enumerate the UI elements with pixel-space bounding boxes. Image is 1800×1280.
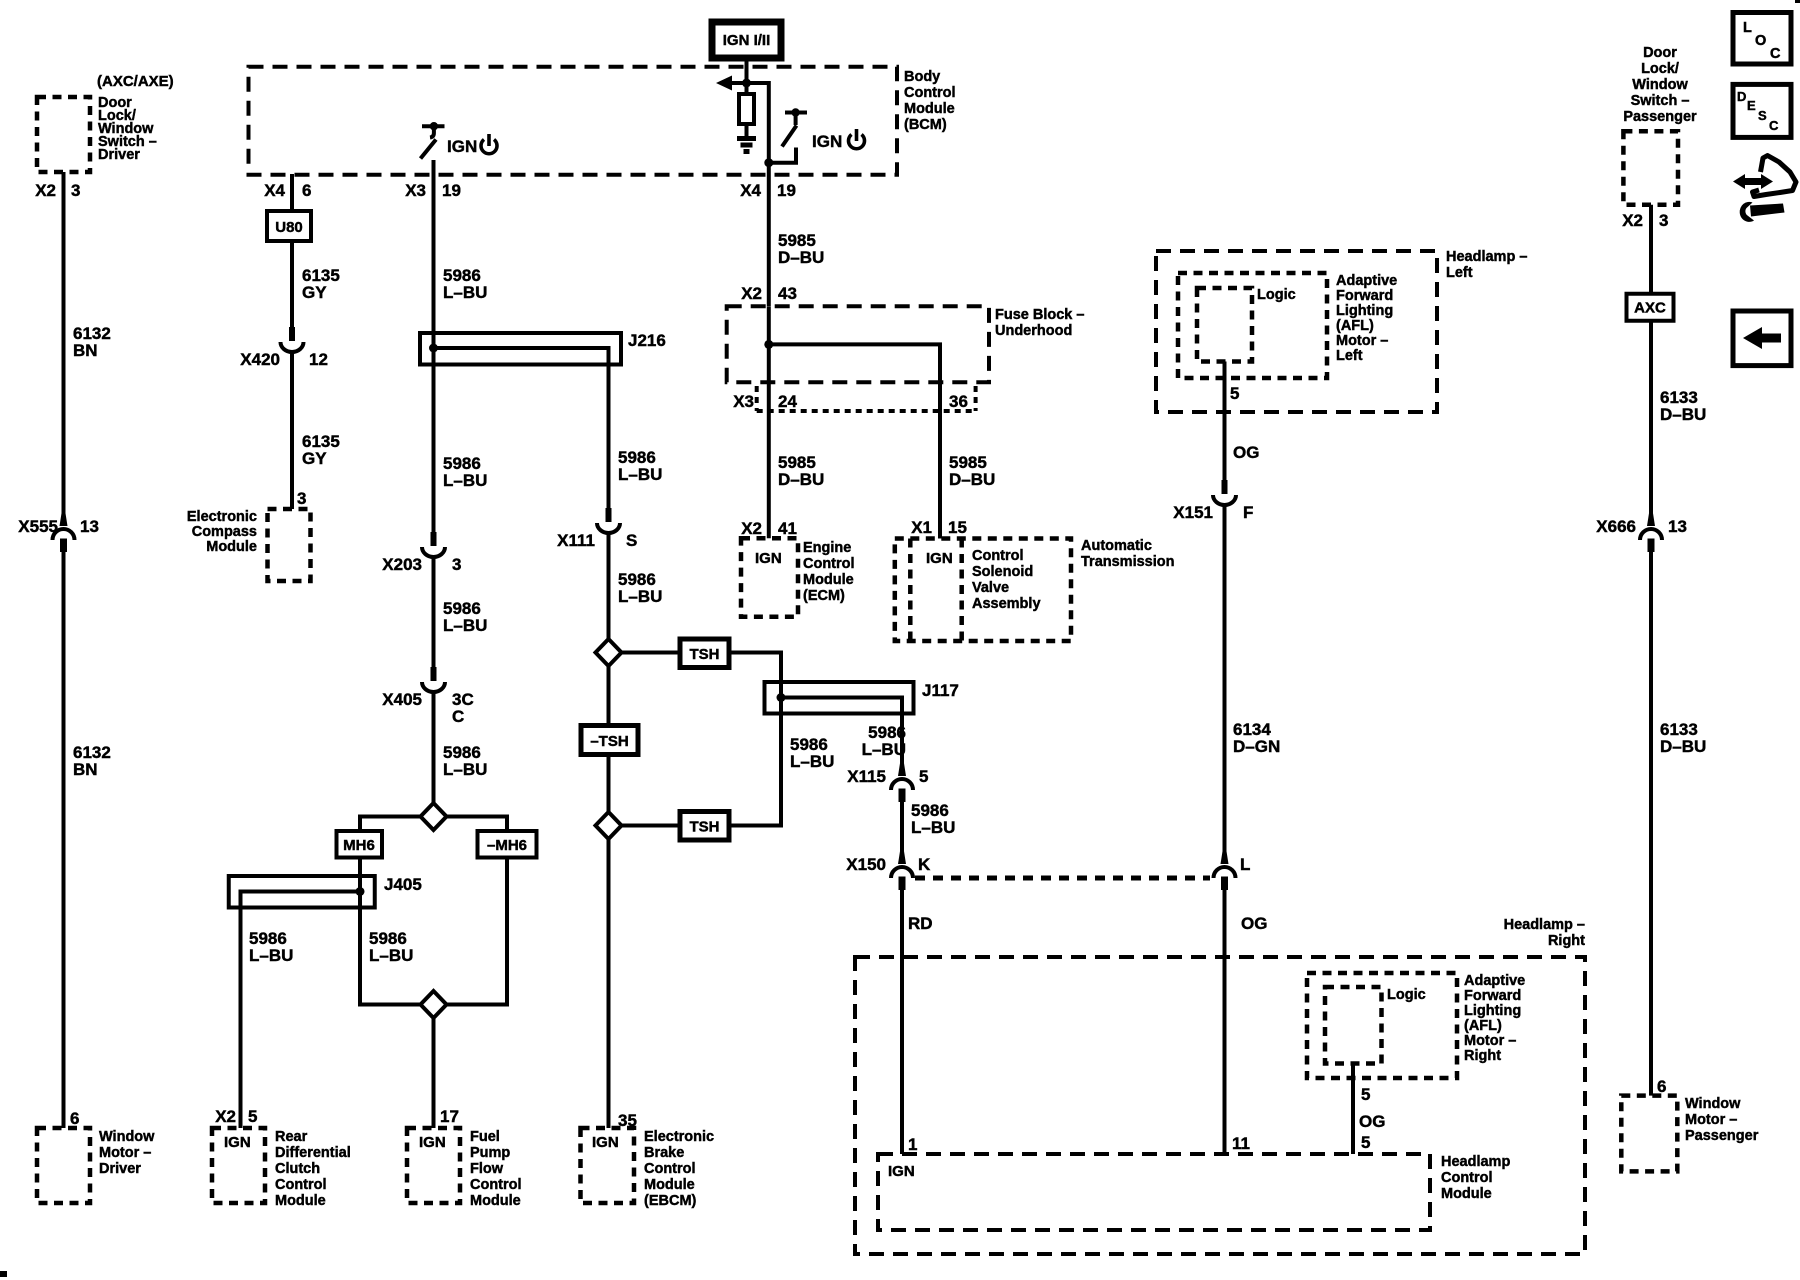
option box -TSH bbox=[581, 726, 638, 755]
svg-text:L–BU: L–BU bbox=[369, 946, 413, 965]
svg-text:17: 17 bbox=[440, 1107, 459, 1126]
connector X666 bbox=[1640, 512, 1662, 552]
svg-text:Control: Control bbox=[275, 1177, 327, 1193]
svg-text:D–BU: D–BU bbox=[778, 248, 824, 267]
connector label X405 3C C bbox=[382, 690, 473, 726]
svg-text:Lighting: Lighting bbox=[1336, 303, 1393, 319]
svg-text:X150: X150 bbox=[846, 855, 886, 874]
splice J216 bbox=[420, 333, 621, 365]
svg-text:Lighting: Lighting bbox=[1464, 1003, 1521, 1019]
module Door Lock/Window Switch - Driver bbox=[37, 97, 90, 172]
connector X151 bbox=[1213, 480, 1236, 505]
module label Engine Control Module (ECM) bbox=[803, 540, 855, 604]
svg-text:13: 13 bbox=[1668, 517, 1687, 536]
wire passenger switch to AXC bbox=[1649, 205, 1653, 294]
svg-text:Control: Control bbox=[1441, 1170, 1493, 1186]
splice label J216 bbox=[628, 331, 666, 350]
svg-text:X405: X405 bbox=[382, 690, 422, 709]
svg-text:Electronic: Electronic bbox=[187, 509, 257, 525]
svg-text:Differential: Differential bbox=[275, 1145, 351, 1161]
svg-text:Solenoid: Solenoid bbox=[972, 564, 1033, 580]
svg-text:19: 19 bbox=[777, 181, 796, 200]
svg-text:X1: X1 bbox=[911, 518, 932, 537]
wire label OG AFL left bbox=[1233, 443, 1259, 462]
svg-text:O: O bbox=[1755, 33, 1766, 49]
svg-text:D–BU: D–BU bbox=[778, 470, 824, 489]
module Control Solenoid Valve Assembly bbox=[926, 539, 962, 642]
module Door Lock/Window Switch - Passenger bbox=[1623, 131, 1678, 204]
module label Door Lock/Window Switch - Passenger bbox=[1623, 45, 1697, 125]
wire label 5986 L-BU below X3 19 bbox=[443, 266, 487, 302]
svg-text:D–BU: D–BU bbox=[949, 470, 995, 489]
svg-text:Clutch: Clutch bbox=[275, 1161, 320, 1177]
pin label X3 19 bbox=[405, 181, 461, 200]
pin label 35 EBCM bbox=[618, 1111, 637, 1130]
wire label 6133 D-BU lower bbox=[1660, 720, 1706, 756]
module Window Motor - Passenger bbox=[1621, 1096, 1677, 1172]
svg-text:X2: X2 bbox=[741, 284, 762, 303]
module label Logic left bbox=[1257, 287, 1296, 303]
svg-text:(AFL): (AFL) bbox=[1336, 318, 1374, 334]
svg-text:IGN: IGN bbox=[447, 137, 477, 156]
svg-text:Adaptive: Adaptive bbox=[1336, 273, 1397, 289]
wire fuse block through circuit bbox=[767, 306, 771, 538]
pin label X2 41 ECM bbox=[741, 519, 797, 538]
svg-text:Right: Right bbox=[1548, 933, 1585, 949]
svg-text:F: F bbox=[1243, 503, 1253, 522]
module label Window Motor - Passenger bbox=[1685, 1096, 1759, 1144]
connector L bbox=[1214, 850, 1236, 890]
connector X405 bbox=[422, 667, 445, 692]
node junction inside fuse block bbox=[764, 340, 773, 349]
module label Headlamp - Left bbox=[1446, 249, 1527, 281]
pin label 1 HCM bbox=[908, 1135, 917, 1154]
wire EBCM from lower diamond bbox=[607, 839, 611, 1128]
svg-text:X203: X203 bbox=[382, 555, 422, 574]
module Headlamp - Left bbox=[1156, 251, 1437, 412]
module Engine Control Module (ECM) bbox=[741, 538, 798, 616]
svg-text:D: D bbox=[1737, 89, 1746, 104]
connector X115 bbox=[891, 762, 913, 802]
wire diamond to TSH lower bbox=[622, 824, 681, 828]
svg-text:43: 43 bbox=[778, 284, 797, 303]
module Electronic Brake Control Module (EBCM) bbox=[581, 1128, 635, 1203]
pin label X2 3 driver switch bbox=[35, 181, 80, 200]
svg-text:Pump: Pump bbox=[470, 1145, 510, 1161]
svg-text:5: 5 bbox=[919, 767, 928, 786]
svg-text:L–BU: L–BU bbox=[443, 471, 487, 490]
svg-text:X151: X151 bbox=[1173, 503, 1213, 522]
wire label 5985 D-BU to transmission bbox=[949, 453, 995, 489]
svg-text:Window: Window bbox=[1632, 77, 1688, 93]
power feed label box IGN I/II bbox=[712, 22, 781, 58]
wire fuse block branch to transmission bbox=[769, 344, 940, 538]
splice J405 bbox=[229, 876, 375, 908]
svg-text:Valve: Valve bbox=[972, 580, 1009, 596]
arrow continuation left inside BCM bbox=[716, 76, 747, 91]
wire 6132 BN upper segment bbox=[62, 172, 66, 526]
wire label 5986 L-BU left branch bbox=[249, 929, 293, 965]
wire label 5986 L-BU below X111 bbox=[618, 570, 662, 606]
svg-text:Control: Control bbox=[904, 85, 956, 101]
svg-text:Headlamp –: Headlamp – bbox=[1446, 249, 1527, 265]
svg-text:5: 5 bbox=[1230, 384, 1239, 403]
svg-text:12: 12 bbox=[309, 350, 328, 369]
connector label X203 3 bbox=[382, 555, 461, 574]
pin label 5 logic right upper bbox=[1361, 1085, 1370, 1104]
svg-text:Body: Body bbox=[904, 69, 940, 85]
icon steering adjust double arrow bbox=[1733, 174, 1773, 189]
wire X4 19 BCM output bbox=[767, 163, 771, 306]
svg-text:5: 5 bbox=[1361, 1133, 1370, 1152]
svg-text:D–BU: D–BU bbox=[1660, 737, 1706, 756]
svg-text:K: K bbox=[918, 855, 931, 874]
svg-text:Control: Control bbox=[972, 548, 1024, 564]
svg-text:Automatic: Automatic bbox=[1081, 538, 1152, 554]
splice diamond lower TSH bbox=[596, 812, 622, 839]
module Rear Differential Clutch Control Module bbox=[212, 1128, 265, 1203]
wire MH6 branch down to merge diamond bbox=[360, 908, 421, 1005]
wire TSH upper to J117 riser bbox=[729, 653, 781, 683]
svg-text:Module: Module bbox=[470, 1193, 521, 1209]
svg-text:–MH6: –MH6 bbox=[487, 837, 527, 854]
option box -MH6 bbox=[478, 831, 537, 858]
svg-text:L–BU: L–BU bbox=[862, 740, 906, 759]
svg-text:L: L bbox=[1240, 855, 1250, 874]
svg-text:X2: X2 bbox=[35, 181, 56, 200]
module label Electronic Compass Module bbox=[187, 509, 257, 555]
svg-text:Underhood: Underhood bbox=[995, 323, 1072, 339]
module label Fuel Pump Flow Control Module bbox=[470, 1129, 522, 1209]
wire X4 6 from BCM to U80 bbox=[290, 174, 294, 211]
svg-text:X3: X3 bbox=[733, 392, 754, 411]
icon box DESC bbox=[1733, 84, 1791, 137]
svg-text:X115: X115 bbox=[847, 767, 886, 786]
switch IGN left inside BCM bbox=[421, 122, 445, 159]
svg-text:OG: OG bbox=[1241, 914, 1267, 933]
splice label J117 bbox=[922, 681, 959, 700]
pin label X3 24 36 fuse block bbox=[733, 392, 968, 411]
splice diamond lower merge bbox=[421, 991, 447, 1018]
pin label 5 AFL left bbox=[1230, 384, 1239, 403]
pin label 6 window motor passenger bbox=[1657, 1077, 1666, 1096]
module Headlamp - Right bbox=[855, 957, 1585, 1254]
module label Logic right bbox=[1387, 987, 1426, 1003]
svg-text:(EBCM): (EBCM) bbox=[644, 1193, 697, 1209]
wire label 5986 L-BU below J216 bbox=[443, 454, 487, 490]
wire diamond to MH6 bbox=[360, 817, 421, 832]
svg-text:(ECM): (ECM) bbox=[803, 588, 845, 604]
icon wrench bbox=[1740, 202, 1785, 222]
svg-text:IGN: IGN bbox=[888, 1163, 915, 1180]
svg-text:5: 5 bbox=[1361, 1085, 1370, 1104]
connector label X151 F bbox=[1173, 503, 1253, 522]
svg-text:L–BU: L–BU bbox=[443, 616, 487, 635]
module Fuel Pump Flow Control Module bbox=[407, 1128, 460, 1203]
svg-text:Module: Module bbox=[803, 572, 854, 588]
wire label 6132 BN upper bbox=[73, 324, 111, 360]
svg-text:AXC: AXC bbox=[1634, 300, 1666, 317]
fuse inside BCM bbox=[739, 94, 754, 137]
svg-text:Motor –: Motor – bbox=[1336, 333, 1388, 349]
svg-text:Control: Control bbox=[470, 1177, 522, 1193]
wire OG L to headlamp control module bbox=[1223, 890, 1227, 1154]
wire label 5986 L-BU below X115 bbox=[911, 801, 955, 837]
pin label 5 logic right lower bbox=[1361, 1133, 1370, 1152]
svg-text:24: 24 bbox=[778, 392, 797, 411]
wire 6135 GY upper segment bbox=[290, 241, 294, 328]
svg-text:TSH: TSH bbox=[690, 646, 720, 663]
wire label 6135 GY lower bbox=[302, 432, 340, 468]
ground inside BCM bbox=[737, 139, 756, 152]
wire label 5986 L-BU above X111 bbox=[618, 448, 662, 484]
svg-text:OG: OG bbox=[1233, 443, 1259, 462]
svg-text:IGN: IGN bbox=[926, 550, 953, 567]
svg-text:6: 6 bbox=[1657, 1077, 1666, 1096]
module Electronic Compass Module bbox=[268, 509, 311, 581]
svg-text:X666: X666 bbox=[1596, 517, 1636, 536]
module label Headlamp Control Module bbox=[1441, 1154, 1510, 1202]
svg-text:36: 36 bbox=[949, 392, 968, 411]
module label Electronic Brake Control Module (EBCM) bbox=[644, 1129, 714, 1209]
wire logic left to X151 bbox=[1223, 362, 1227, 481]
svg-text:J216: J216 bbox=[628, 331, 666, 350]
wire TSH lower up to J117 riser bbox=[729, 714, 781, 826]
wire label 5985 D-BU below X4 19 bbox=[778, 231, 824, 267]
wire label 5986 L-BU below X405 bbox=[443, 743, 487, 779]
switch IGN right inside BCM bbox=[764, 108, 807, 167]
switch label IGN right with power symbol bbox=[812, 129, 864, 151]
option box MH6 bbox=[337, 831, 383, 858]
connector face X3 fuse block bbox=[757, 386, 976, 411]
wire 5986 L-BU X111 to diamond bbox=[607, 532, 611, 639]
splice diamond upper MH6 bbox=[421, 803, 447, 830]
pin label 3 compass bbox=[297, 489, 306, 508]
svg-text:Control: Control bbox=[803, 556, 855, 572]
svg-text:Driver: Driver bbox=[98, 147, 140, 163]
svg-text:L: L bbox=[1743, 20, 1752, 36]
icon box LOC bbox=[1733, 13, 1791, 65]
svg-text:Right: Right bbox=[1464, 1048, 1501, 1064]
svg-text:X2: X2 bbox=[1622, 211, 1643, 230]
svg-text:C: C bbox=[1770, 46, 1781, 62]
svg-text:Engine: Engine bbox=[803, 540, 851, 556]
svg-text:Switch –: Switch – bbox=[1631, 93, 1690, 109]
svg-text:Window: Window bbox=[1685, 1096, 1741, 1112]
svg-text:L–BU: L–BU bbox=[443, 283, 487, 302]
wire label 5986 L-BU MH6 branch bbox=[369, 929, 413, 965]
option box TSH lower bbox=[680, 812, 729, 841]
wire IGN I/II feed into BCM bbox=[745, 58, 749, 94]
svg-text:(BCM): (BCM) bbox=[904, 117, 947, 133]
connector label X115 5 bbox=[847, 767, 928, 786]
svg-text:Driver: Driver bbox=[99, 1161, 141, 1177]
splice diamond upper TSH bbox=[596, 639, 622, 666]
svg-text:Passenger: Passenger bbox=[1623, 109, 1697, 125]
svg-text:IGN I/II: IGN I/II bbox=[723, 32, 771, 49]
connector X555 bbox=[53, 512, 75, 552]
wire label 5986 L-BU below X203 bbox=[443, 599, 487, 635]
svg-text:IGN: IGN bbox=[419, 1134, 446, 1151]
wire X3 19 BCM output bbox=[432, 160, 436, 333]
pin label 6 window motor driver bbox=[70, 1109, 79, 1128]
module Window Motor - Driver bbox=[37, 1128, 90, 1203]
pin label X2 3 passenger switch bbox=[1622, 211, 1668, 230]
module Fuse Block - Underhood bbox=[727, 306, 989, 382]
svg-text:41: 41 bbox=[778, 519, 797, 538]
svg-text:–TSH: –TSH bbox=[590, 733, 628, 750]
pin label X4 19 bbox=[740, 181, 796, 200]
svg-text:D–GN: D–GN bbox=[1233, 737, 1280, 756]
connector label X420 12 bbox=[240, 350, 328, 369]
wire diamond to -TSH bbox=[607, 666, 611, 726]
svg-text:E: E bbox=[1747, 98, 1756, 113]
wire -TSH to lower diamond bbox=[607, 755, 611, 813]
pin label 11 HCM bbox=[1232, 1134, 1250, 1153]
connector label X150 K bbox=[846, 855, 931, 874]
svg-text:Passenger: Passenger bbox=[1685, 1128, 1759, 1144]
module label Control Solenoid Valve Assembly bbox=[972, 548, 1041, 612]
svg-text:L–BU: L–BU bbox=[618, 587, 662, 606]
svg-text:X420: X420 bbox=[240, 350, 280, 369]
wire 6134 D-GN X151 to L bbox=[1223, 504, 1227, 864]
svg-text:J117: J117 bbox=[922, 681, 959, 700]
wire diamond to -MH6 bbox=[447, 817, 508, 832]
wire 6135 GY lower segment bbox=[290, 351, 294, 509]
connector label L bbox=[1240, 855, 1250, 874]
wire 6133 D-BU upper segment bbox=[1649, 321, 1653, 526]
module Automatic Transmission outer box bbox=[895, 539, 1071, 642]
svg-text:15: 15 bbox=[948, 518, 967, 537]
svg-text:BN: BN bbox=[73, 341, 98, 360]
svg-text:IGN: IGN bbox=[592, 1134, 619, 1151]
wire merge diamond to fuel pump module bbox=[432, 1018, 436, 1128]
svg-text:BN: BN bbox=[73, 760, 98, 779]
svg-text:Motor –: Motor – bbox=[1685, 1112, 1737, 1128]
svg-text:3: 3 bbox=[71, 181, 80, 200]
svg-text:TSH: TSH bbox=[690, 819, 720, 836]
svg-text:X4: X4 bbox=[740, 181, 761, 200]
wire label 6134 D-GN bbox=[1233, 720, 1280, 756]
wire 6133 D-BU lower segment bbox=[1649, 552, 1653, 1096]
module Logic right bbox=[1325, 987, 1382, 1064]
corner mark bottom left bbox=[0, 1271, 7, 1277]
fuse U80 bbox=[267, 211, 311, 241]
svg-text:1: 1 bbox=[908, 1135, 917, 1154]
switch label IGN left with power symbol bbox=[447, 134, 497, 156]
svg-text:Assembly: Assembly bbox=[972, 596, 1041, 612]
svg-text:U80: U80 bbox=[275, 219, 303, 236]
svg-text:IGN: IGN bbox=[755, 550, 782, 567]
wire label 5985 D-BU to ECM bbox=[778, 453, 824, 489]
svg-text:Motor –: Motor – bbox=[1464, 1033, 1516, 1049]
wire logic right to headlamp control module bbox=[1351, 1064, 1355, 1155]
module label Body Control Module (BCM) bbox=[904, 69, 956, 133]
svg-text:C: C bbox=[1769, 118, 1779, 133]
icon steering outline shape bbox=[1753, 156, 1797, 197]
module label AFL Motor - Right bbox=[1464, 973, 1525, 1064]
svg-text:IGN: IGN bbox=[812, 132, 842, 151]
wire MH6 to J405 bbox=[358, 858, 362, 877]
connector X203 bbox=[422, 532, 445, 557]
pin label 17 fuel pump bbox=[440, 1107, 459, 1126]
svg-text:Motor –: Motor – bbox=[99, 1145, 151, 1161]
wire 6132 BN lower segment bbox=[62, 552, 66, 1128]
svg-text:OG: OG bbox=[1359, 1112, 1385, 1131]
option box TSH upper bbox=[680, 639, 729, 668]
module label Door Lock/Window Switch - Driver bbox=[98, 95, 157, 163]
svg-text:3: 3 bbox=[1659, 211, 1668, 230]
splice J117 bbox=[765, 682, 914, 714]
svg-text:Window: Window bbox=[99, 1129, 155, 1145]
svg-text:X555: X555 bbox=[18, 517, 58, 536]
svg-text:S: S bbox=[626, 531, 637, 550]
pin label X2 43 fuse block bbox=[741, 284, 797, 303]
wire 5986 L-BU J216 to X203 bbox=[432, 365, 436, 533]
svg-text:11: 11 bbox=[1232, 1134, 1250, 1153]
wire label 6135 GY upper bbox=[302, 266, 340, 302]
module label Window Motor - Driver bbox=[99, 1129, 155, 1177]
svg-text:5: 5 bbox=[248, 1107, 257, 1126]
wire 5986 L-BU X405 to splice diamond bbox=[432, 691, 436, 803]
wire J117 to X115 bbox=[900, 714, 904, 777]
node junction at BCM feed bbox=[742, 79, 751, 88]
wire RD X150 to headlamp control module bbox=[900, 890, 904, 1154]
pin label X2 5 rear diff bbox=[215, 1107, 257, 1126]
svg-text:X3: X3 bbox=[405, 181, 426, 200]
svg-text:Flow: Flow bbox=[470, 1161, 504, 1177]
svg-text:GY: GY bbox=[302, 283, 327, 302]
module label Fuse Block - Underhood bbox=[995, 307, 1084, 339]
connector X420 bbox=[281, 327, 304, 352]
svg-text:Adaptive: Adaptive bbox=[1464, 973, 1525, 989]
svg-text:6: 6 bbox=[302, 181, 311, 200]
svg-text:3: 3 bbox=[452, 555, 461, 574]
wire 5986 L-BU J216 to X111 bbox=[607, 365, 611, 509]
svg-text:L–BU: L–BU bbox=[618, 465, 662, 484]
module label Automatic Transmission bbox=[1081, 538, 1174, 570]
module label Headlamp - Right bbox=[1504, 917, 1586, 949]
wire diamond to TSH upper bbox=[622, 651, 681, 655]
svg-text:19: 19 bbox=[442, 181, 461, 200]
svg-text:Forward: Forward bbox=[1464, 988, 1521, 1004]
svg-text:L–BU: L–BU bbox=[249, 946, 293, 965]
svg-text:Lock/: Lock/ bbox=[1641, 61, 1679, 77]
wire label 6132 BN lower bbox=[73, 743, 111, 779]
svg-text:Rear: Rear bbox=[275, 1129, 308, 1145]
connector X150 bbox=[891, 850, 913, 890]
svg-text:Door: Door bbox=[1643, 45, 1677, 61]
module label AFL Motor - Left bbox=[1336, 273, 1397, 364]
svg-text:Fuse Block –: Fuse Block – bbox=[995, 307, 1084, 323]
svg-text:IGN: IGN bbox=[224, 1134, 251, 1151]
svg-text:L–BU: L–BU bbox=[443, 760, 487, 779]
svg-text:(AFL): (AFL) bbox=[1464, 1018, 1502, 1034]
connector label X555 13 bbox=[18, 517, 99, 536]
svg-text:Control: Control bbox=[644, 1161, 696, 1177]
svg-text:X2: X2 bbox=[741, 519, 762, 538]
module label Rear Differential Clutch Control Module bbox=[275, 1129, 351, 1209]
svg-text:Transmission: Transmission bbox=[1081, 554, 1174, 570]
pin label X4 6 bbox=[264, 181, 311, 200]
svg-text:L–BU: L–BU bbox=[790, 752, 834, 771]
pin label X1 15 transmission bbox=[911, 518, 967, 537]
wire 5986 L-BU X115 to X150 bbox=[900, 802, 904, 864]
svg-text:RD: RD bbox=[908, 914, 933, 933]
corner mark top right bbox=[1795, 0, 1800, 3]
svg-text:Left: Left bbox=[1446, 265, 1473, 281]
svg-text:Module: Module bbox=[1441, 1186, 1492, 1202]
